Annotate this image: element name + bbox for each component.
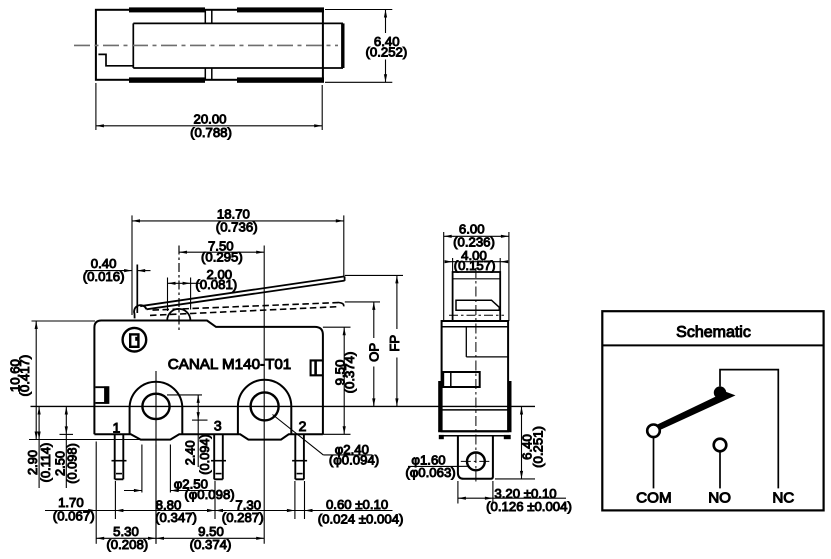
svg-text:(0.208): (0.208): [106, 537, 148, 552]
dim 7.50 line: [179, 251, 264, 253]
svg-text:(0.067): (0.067): [53, 508, 95, 523]
moving contact dot: [714, 386, 726, 398]
top view lever top edge: [133, 22, 343, 24]
side body outline: [442, 321, 509, 431]
left side clip: [95, 387, 108, 403]
svg-text:(0.736): (0.736): [216, 219, 258, 234]
dim 2.90 line: [38, 406, 40, 488]
svg-text:(0.788): (0.788): [190, 125, 232, 140]
svg-text:(0.295): (0.295): [201, 250, 243, 265]
dim 10.60 line: [35, 321, 37, 440]
phi 2.50 extension lines: [141, 445, 143, 493]
dim 4.00 line with outside arrows: [446, 261, 508, 263]
top view lever left edge: [132, 23, 134, 68]
svg-text:(0.081): (0.081): [195, 277, 237, 292]
phi 1.60 leader: [408, 465, 453, 467]
svg-text:(φ0.063): (φ0.063): [405, 465, 455, 480]
lever solid free position: [140, 276, 344, 306]
right side clip: [311, 360, 323, 375]
terminal pin 3: [213, 434, 215, 479]
bottom dimension row 2: [96, 537, 264, 539]
svg-text:0.60 ±0.10: 0.60 ±0.10: [326, 497, 388, 512]
dim 0.40 lines with outside arrows: [86, 270, 133, 272]
top view terminal tab bottom-right: [237, 77, 324, 82]
dim 18.70 extension lines: [131, 215, 133, 315]
side clip bars: [438, 381, 441, 431]
svg-text:(0.126 ±0.004): (0.126 ±0.004): [486, 499, 572, 514]
svg-text:(0.157): (0.157): [454, 258, 496, 273]
pivot bump on top edge: [167, 309, 190, 321]
boss center lines: [475, 268, 477, 483]
right mounting tower: [238, 380, 291, 435]
svg-text:COM: COM: [636, 490, 671, 507]
svg-text:(φ0.094): (φ0.094): [329, 453, 379, 468]
phi 2.50 dim line: [124, 490, 142, 492]
dimension 6.40 line: [385, 10, 387, 34]
FRONTVIEW: [8, 207, 535, 552]
FP extension line: [345, 274, 403, 276]
svg-text:(0.374): (0.374): [342, 352, 357, 394]
plunger outline: [453, 272, 501, 321]
dim 2.00 extension lines: [167, 278, 169, 312]
dim 0.40 extension line second: [136, 265, 138, 314]
dim 2.40 line: [197, 395, 199, 467]
svg-text:(0.287): (0.287): [222, 510, 264, 525]
dim 2.00 line: [168, 282, 203, 284]
svg-text:(φ0.098): (φ0.098): [184, 487, 234, 502]
flange: [438, 430, 511, 432]
svg-text:3: 3: [214, 418, 222, 434]
front body outline: [94, 321, 323, 435]
dim 9.50 right extension lines: [323, 326, 351, 328]
top view lever bent tip hook: [98, 54, 133, 65]
bottom dimension row 1: [45, 510, 393, 512]
top view seam notch bottom: [204, 68, 206, 80]
svg-text:(0.347): (0.347): [155, 510, 197, 525]
dim 10.60 extension lines: [32, 320, 96, 322]
NO terminal circle: [714, 439, 727, 452]
dim 6.40 side extension line: [495, 478, 535, 480]
FP dimension line: [396, 275, 398, 329]
svg-text:(0.094): (0.094): [197, 434, 212, 475]
dim 3.20 extension lines: [457, 481, 459, 504]
top view terminal tab top-right: [237, 7, 324, 12]
internal window rect: [443, 372, 480, 387]
schematic title divider: [602, 344, 823, 346]
terminal pin 2: [294, 434, 296, 479]
svg-text:OP: OP: [367, 343, 382, 362]
SIDEVIEW: [405, 222, 572, 514]
top view lever right edge thick: [341, 23, 344, 68]
svg-text:1: 1: [113, 419, 121, 435]
bottom terminal boss: [458, 436, 493, 479]
svg-text:CANAL M140-T01: CANAL M140-T01: [168, 356, 292, 373]
OP extension line: [345, 301, 380, 303]
front body bottom edge with bosses: [94, 434, 323, 439]
bottom extension verticals: [95, 442, 97, 544]
mounting hole top-left: [123, 328, 147, 352]
datum line through hole centers: [31, 405, 536, 407]
vertical center line circle 1: [155, 371, 157, 544]
top view seam notch top: [204, 10, 206, 24]
dim 6.00 extension lines: [443, 232, 445, 321]
extension line through op point (to circle 2 and rows): [263, 246, 265, 544]
schematic box: [602, 311, 823, 510]
dimension 20.00 line: [96, 125, 322, 127]
dim 9.50 right line: [343, 327, 345, 434]
dim 4.00 extension lines: [452, 258, 454, 272]
wire NO: [719, 451, 721, 488]
internal step: [465, 327, 467, 357]
switch lever arm: [656, 392, 735, 430]
svg-text:(0.417): (0.417): [17, 355, 32, 397]
wire COM: [653, 437, 655, 488]
top view body outline: [96, 10, 323, 80]
right hole phi2.40: [251, 392, 279, 420]
wire dot to NC: [720, 370, 778, 489]
svg-text:2.40: 2.40: [182, 440, 197, 465]
svg-text:(0.252): (0.252): [366, 45, 408, 60]
svg-text:(0.114): (0.114): [38, 443, 53, 483]
svg-text:FP: FP: [387, 335, 402, 352]
svg-text:NO: NO: [708, 490, 731, 507]
svg-text:(0.251): (0.251): [531, 426, 546, 468]
left hole (oval 2.50 x 2.40): [142, 394, 169, 419]
plunger roller block: [456, 300, 499, 310]
boss hole phi1.60: [467, 453, 485, 471]
phi 2.40 leader: [273, 415, 324, 455]
COM terminal circle: [647, 425, 660, 438]
top view terminal tab top-left: [129, 7, 205, 12]
pivot center dash-dot line: [178, 246, 180, 332]
OP dimension line: [373, 302, 375, 338]
svg-text:NC: NC: [772, 490, 794, 507]
svg-text:2: 2: [299, 418, 307, 434]
SCHEMATIC: [602, 311, 823, 510]
dim 2.40 extension ticks: [167, 394, 202, 396]
lever curled end: [134, 305, 146, 318]
dim 18.70 line: [132, 220, 344, 222]
dim 6.40 side line: [521, 406, 523, 478]
terminal pin 1: [114, 434, 116, 479]
lever dashed operating position: [153, 303, 339, 311]
left mounting tower: [130, 382, 183, 435]
svg-text:(0.016): (0.016): [83, 269, 125, 284]
dimension 20.00 extension lines: [95, 83, 97, 130]
dim 2.50 line: [65, 406, 67, 488]
dim 3.20 line: [458, 497, 566, 499]
svg-text:(0.374): (0.374): [190, 537, 232, 552]
dimension 6.40 extension lines: [325, 9, 392, 11]
svg-text:Schematic: Schematic: [676, 324, 751, 341]
top view center line: [74, 44, 338, 46]
svg-text:(0.098): (0.098): [65, 443, 80, 484]
top view terminal tab bottom-left: [129, 77, 205, 82]
top view lever bottom edge: [133, 67, 343, 69]
svg-text:(0.024 ±0.004): (0.024 ±0.004): [318, 511, 404, 526]
TOPVIEW: [74, 7, 407, 139]
dim 6.00 line: [444, 235, 509, 237]
